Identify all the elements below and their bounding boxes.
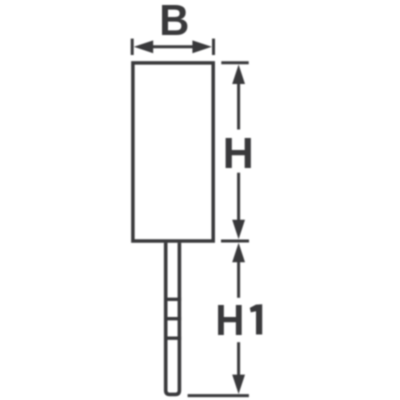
svg-text:H: H <box>215 296 244 345</box>
svg-text:B: B <box>159 0 189 45</box>
svg-text:H: H <box>223 129 254 178</box>
